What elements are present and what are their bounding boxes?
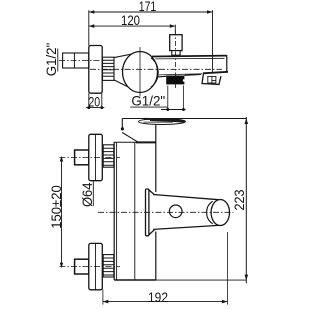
extension line flange right: [101, 93, 103, 109]
centerline nipple axis: [59, 60, 104, 62]
svg-text:171: 171: [139, 0, 157, 14]
handle base: [146, 189, 149, 236]
svg-text:G1/2": G1/2": [131, 93, 165, 109]
svg-text:G1/2": G1/2": [43, 43, 59, 77]
wall flange (side view): [89, 46, 102, 94]
extension line left (wall face): [88, 10, 90, 109]
dim 223 arrows: [245, 118, 249, 280]
barrel bottom inner line: [159, 74, 202, 75]
lower knurl hatch: [103, 258, 114, 275]
extension lines outlet: [168, 86, 184, 111]
dim 192 arrows: [103, 300, 227, 304]
svg-text:Ø64: Ø64: [79, 182, 95, 207]
barrel inner top line: [155, 57, 224, 60]
wall nipple G1/2: [63, 53, 89, 68]
Ø64 underline: [92, 182, 94, 207]
spout tip bottom thick edge: [203, 72, 228, 74]
diverter knob cap: [170, 35, 182, 51]
extension line 192 right: [226, 232, 228, 305]
knurled nut (side view): [103, 57, 115, 80]
lower flange: [89, 243, 103, 289]
lower union centerline: [60, 266, 121, 268]
dim 223 text: [231, 189, 247, 210]
handle tip dome: [211, 200, 229, 226]
dim 223 line: [245, 117, 247, 283]
dim 20 arrow dots: [87, 106, 90, 109]
body middle line: [134, 142, 136, 280]
barrel bottom edge: [158, 75, 201, 77]
ellipse vertical centerline: [139, 47, 141, 96]
extension line top (223): [122, 118, 246, 120]
dim G1/2 line: [161, 109, 186, 111]
aerator insert step: [212, 80, 216, 82]
spout barrel top edge: [152, 55, 227, 58]
handle base bevel bottom: [149, 230, 155, 235]
label underline: [57, 49, 59, 72]
lower hex nut: [75, 259, 89, 274]
svg-text:120: 120: [121, 12, 140, 28]
label underline: [130, 106, 168, 108]
knurl hatch: [103, 60, 115, 76]
extension line 171 right: [212, 10, 214, 72]
dish right dark fill: [150, 119, 185, 123]
outlet notch: [183, 79, 185, 81]
cone to valve body: [114, 54, 131, 87]
svg-text:150±20: 150±20: [48, 185, 64, 229]
upper union centerline: [60, 156, 121, 158]
dim G1/2 arrow dots: [166, 108, 169, 111]
ellipse inner arc: [151, 58, 158, 87]
upper knurl hatch: [103, 148, 114, 165]
svg-text:20: 20: [88, 93, 100, 109]
lower knurl: [103, 255, 114, 277]
body left edge outer: [113, 142, 115, 280]
shoulder slant: [122, 133, 137, 142]
dim Ø64 text: [79, 182, 95, 207]
knob centerline: [174, 31, 176, 89]
dim 20 line: [86, 107, 104, 109]
handle centerline: [98, 211, 234, 213]
upper flange: [89, 134, 103, 180]
svg-text:192: 192: [148, 289, 168, 305]
handle grip bottom edge: [153, 225, 218, 229]
aerator insert divider: [211, 76, 213, 83]
shower outlet (black): [166, 76, 184, 85]
upper hex nut: [75, 150, 89, 165]
dim 120 arrows: [89, 24, 176, 28]
body left edge inner: [116, 142, 118, 280]
top cap dish: [139, 119, 186, 125]
dim 120 line: [89, 25, 176, 27]
body bottom edge: [114, 279, 156, 281]
extension line bottom right: [156, 279, 247, 281]
handle base bevel top: [149, 190, 155, 195]
upper knurl: [103, 145, 114, 167]
dish inner chord: [144, 121, 174, 123]
dim 150±20 text: [48, 185, 64, 229]
upper flange midline: [95, 134, 97, 180]
nipple thread divider: [73, 53, 75, 68]
handle grip top edge: [153, 195, 218, 200]
label G1/2" (left, rotated): [43, 43, 59, 77]
extension line 192 left: [102, 290, 104, 305]
aerator insert: [208, 76, 216, 83]
handle cap seam arc: [207, 201, 213, 224]
body right edge: [155, 142, 157, 280]
dim 192 line: [103, 301, 227, 303]
dim 171 arrows: [89, 10, 213, 14]
shoulder line: [114, 141, 138, 143]
svg-text:223: 223: [231, 189, 247, 210]
hook dot: [121, 127, 124, 130]
dish thick right edge: [144, 119, 185, 122]
handle hole: [169, 205, 182, 218]
valve body ellipse: [123, 52, 158, 93]
dim 171 line: [89, 11, 213, 13]
dim 150±20 line: [61, 158, 63, 267]
cap left hook: [121, 119, 123, 131]
extension line 120 right: [174, 25, 176, 34]
barrel right end: [226, 55, 228, 72]
diverter knob stem: [172, 51, 180, 56]
centerline body axis: [90, 68, 222, 70]
body neck right edge: [155, 124, 157, 142]
shoulder line thick: [136, 141, 156, 143]
spout aerator cup: [202, 73, 221, 84]
dim 150±20 arrows: [60, 156, 63, 268]
lower flange midline: [95, 243, 97, 289]
